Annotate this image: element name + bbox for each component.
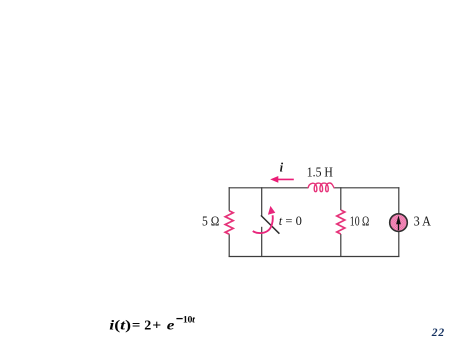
wire switch vertical upper — [261, 187, 263, 216]
svg-text:10 Ω: 10 Ω — [350, 215, 370, 230]
resistor R1 5ohm — [225, 211, 233, 234]
svg-text:1.5 H: 1.5 H — [307, 164, 333, 179]
current source arrowhead — [396, 215, 401, 224]
switch blade — [261, 215, 280, 233]
svg-text:2: 2 — [144, 318, 151, 333]
wire left vertical lower — [228, 234, 230, 257]
svg-text:5 Ω: 5 Ω — [202, 215, 219, 230]
current arrowhead — [270, 176, 278, 183]
svg-text:i: i — [280, 161, 284, 175]
wire switch vertical lower — [261, 227, 263, 257]
svg-text:+: + — [152, 318, 161, 333]
svg-text:22: 22 — [431, 327, 445, 339]
svg-text:10t: 10t — [183, 315, 195, 326]
wire source vertical lower — [398, 232, 400, 257]
svg-text:=: = — [132, 318, 141, 333]
resistor R2 10ohm — [337, 210, 345, 234]
svg-text:t = 0: t = 0 — [279, 214, 302, 228]
wire left vertical upper — [228, 187, 230, 211]
wire 10ohm vertical upper — [340, 187, 342, 210]
equation exponent minus — [176, 318, 182, 320]
inductor L1 1.5H — [308, 183, 334, 192]
switch motion arc — [253, 215, 273, 233]
current source arrow shaft — [398, 223, 400, 230]
svg-text:i(t): i(t) — [109, 318, 131, 333]
svg-text:3 A: 3 A — [414, 215, 432, 230]
wire source vertical upper — [398, 187, 400, 213]
svg-text:e: e — [167, 318, 175, 333]
current arrow shaft — [276, 178, 294, 180]
current source I1 circle — [390, 214, 408, 232]
wire 10ohm vertical lower — [340, 234, 342, 257]
wire top right segment — [334, 187, 399, 189]
switch arrowhead — [268, 206, 275, 215]
wire top left segment — [229, 187, 308, 189]
wire bottom — [229, 256, 400, 258]
